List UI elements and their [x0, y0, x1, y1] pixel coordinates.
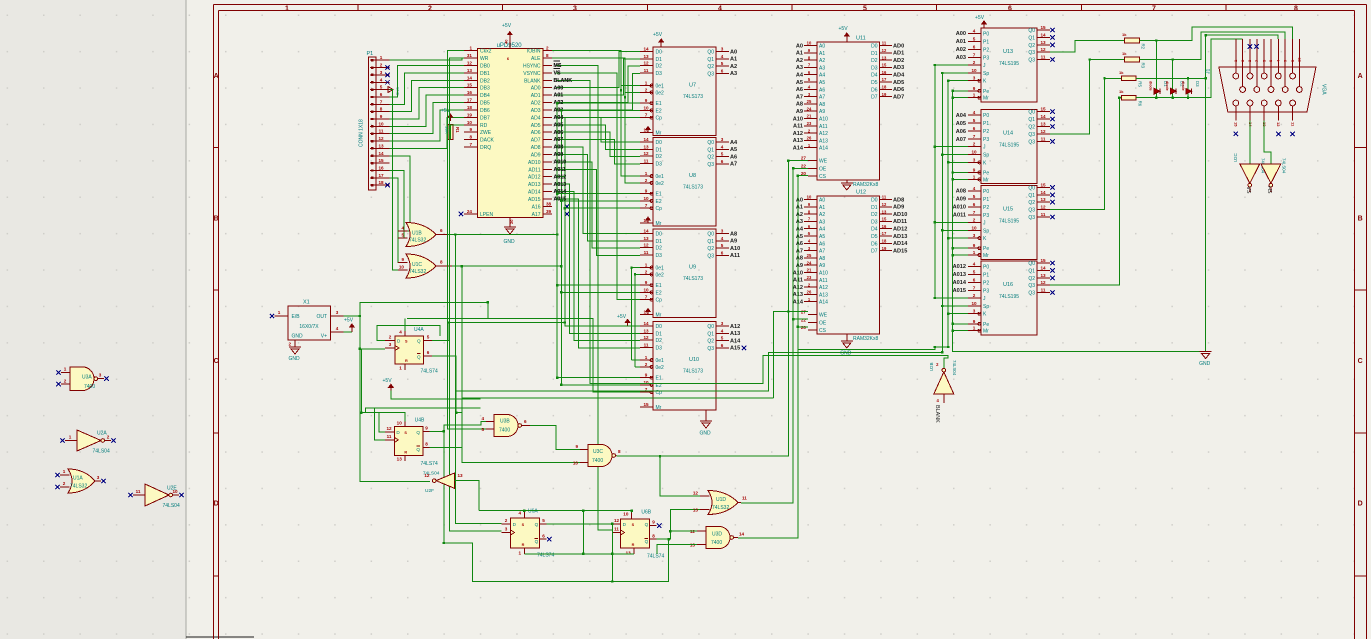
wire VS long vertical: [556, 73, 640, 300]
no-connect marks P1 pins 2,3,4,18: [385, 65, 389, 69]
svg-text:E1: E1: [656, 283, 662, 289]
IC U? uPD9520: [478, 49, 544, 218]
svg-text:A13: A13: [819, 138, 828, 144]
svg-text:17: 17: [882, 231, 887, 236]
svg-text:6: 6: [427, 350, 430, 355]
svg-text:A12: A12: [730, 324, 740, 330]
svg-text:0e2: 0e2: [656, 272, 665, 278]
svg-text:D0: D0: [656, 232, 663, 238]
svg-text:P1: P1: [983, 39, 989, 45]
svg-text:A11: A11: [793, 124, 803, 130]
svg-text:A09: A09: [956, 197, 966, 203]
svg-text:8: 8: [546, 53, 549, 58]
svg-text:Q0: Q0: [707, 50, 714, 56]
svg-text:U1D: U1D: [716, 497, 726, 503]
svg-text:12: 12: [1040, 47, 1046, 52]
svg-text:P3: P3: [983, 288, 989, 294]
svg-text:A03: A03: [956, 55, 966, 61]
svg-text:10: 10: [971, 150, 977, 155]
svg-text:P0: P0: [983, 189, 989, 195]
svg-text:Q0: Q0: [1028, 28, 1035, 34]
svg-text:RAM32Kx8: RAM32Kx8: [853, 182, 879, 188]
svg-text:8: 8: [425, 441, 428, 446]
svg-text:AD7: AD7: [893, 94, 904, 100]
svg-text:10: 10: [643, 196, 649, 201]
svg-text:CS: CS: [819, 174, 827, 180]
svg-text:D0: D0: [871, 44, 878, 50]
svg-text:S: S: [404, 431, 407, 435]
svg-text:4: 4: [401, 225, 404, 230]
svg-text:DACK: DACK: [480, 138, 495, 144]
svg-text:Mr: Mr: [983, 329, 989, 335]
sheet edge: [185, 0, 187, 639]
svg-text:+5V: +5V: [502, 23, 512, 29]
svg-text:10: 10: [397, 420, 403, 425]
svg-text:8: 8: [380, 107, 383, 112]
svg-text:5: 5: [481, 427, 484, 432]
svg-text:U2F: U2F: [425, 488, 434, 494]
svg-text:Q1: Q1: [1028, 117, 1035, 123]
wire J1 pin13 to U2D: [1264, 120, 1271, 164]
svg-text:AD5: AD5: [531, 123, 541, 129]
svg-text:74LS32: 74LS32: [712, 505, 729, 511]
svg-text:40: 40: [504, 39, 509, 44]
svg-text:A6: A6: [819, 241, 825, 247]
wire bus P1 data staircase: [390, 65, 464, 97]
svg-text:9: 9: [973, 243, 976, 248]
svg-text:5: 5: [721, 152, 724, 157]
svg-text:A012: A012: [953, 264, 966, 270]
svg-text:7: 7: [645, 295, 648, 300]
wire U3D out to CS: [738, 176, 808, 538]
svg-text:3: 3: [721, 229, 724, 234]
svg-text:6: 6: [973, 44, 976, 49]
svg-text:U3B: U3B: [500, 419, 510, 425]
svg-text:9: 9: [645, 373, 648, 378]
svg-text:U1B: U1B: [412, 231, 422, 237]
svg-text:HSYNC: HSYNC: [523, 63, 541, 69]
or-gate U1C 74LS32: [406, 254, 436, 278]
svg-text:D0: D0: [656, 324, 663, 330]
svg-text:4: 4: [336, 326, 339, 331]
svg-text:AD8: AD8: [893, 197, 904, 203]
svg-text:Q3: Q3: [707, 346, 714, 352]
wire clock vertical U2F: [360, 316, 430, 482]
svg-text:Q: Q: [535, 539, 539, 544]
inverter U2C 74LS04: [1240, 164, 1260, 184]
svg-text:3: 3: [505, 527, 508, 532]
svg-text:U9: U9: [689, 265, 696, 271]
svg-text:Pe: Pe: [983, 89, 989, 95]
svg-text:E/B: E/B: [292, 314, 301, 320]
svg-text:Q1: Q1: [707, 57, 714, 63]
svg-text:Q: Q: [645, 522, 649, 527]
svg-text:AD15: AD15: [528, 197, 541, 203]
IC U13 74LS195: [981, 28, 1037, 102]
svg-text:6: 6: [973, 202, 976, 207]
wire U3B out to U3C: [530, 426, 580, 450]
svg-text:U15: U15: [1003, 206, 1013, 212]
svg-text:11: 11: [1041, 136, 1046, 141]
svg-text:7400: 7400: [499, 428, 510, 434]
svg-text:15: 15: [1234, 122, 1239, 127]
svg-text:R5: R5: [1138, 81, 1143, 87]
svg-text:4: 4: [973, 261, 976, 266]
or-gate U1A 74LS32: [68, 469, 95, 493]
svg-text:DB6: DB6: [480, 108, 490, 114]
svg-text:A0: A0: [796, 43, 803, 49]
svg-text:12: 12: [693, 491, 699, 496]
svg-text:Q: Q: [416, 430, 420, 435]
+5V above U13: [983, 21, 985, 28]
wire clock drop to loop: [611, 524, 613, 582]
svg-text:A015: A015: [554, 197, 567, 203]
svg-text:A9: A9: [819, 263, 825, 269]
svg-text:VS: VS: [1245, 186, 1251, 194]
svg-text:Mr: Mr: [656, 405, 662, 411]
svg-text:13: 13: [626, 550, 632, 555]
svg-text:D0: D0: [656, 50, 663, 56]
svg-text:74LS173: 74LS173: [683, 276, 703, 282]
svg-text:D5: D5: [871, 234, 878, 240]
wire R5 to VGA comb and ground trunk: [1136, 77, 1205, 79]
svg-text:A10: A10: [819, 117, 828, 123]
svg-text:16: 16: [882, 224, 887, 229]
wire Pe bus to ground trunk: [953, 331, 1206, 352]
svg-text:2: 2: [973, 293, 976, 298]
svg-text:74LS195: 74LS195: [999, 294, 1019, 300]
ground X1: [289, 346, 301, 348]
flip-flop U6B 74LS74: [621, 519, 650, 548]
svg-text:26: 26: [807, 136, 812, 141]
svg-text:2: 2: [645, 362, 648, 367]
svg-text:13: 13: [643, 328, 649, 333]
svg-text:Ckx2: Ckx2: [480, 49, 492, 55]
svg-text:74LS195: 74LS195: [999, 61, 1019, 67]
svg-text:Q3: Q3: [1028, 283, 1035, 289]
svg-text:39: 39: [546, 209, 552, 214]
svg-text:A3: A3: [730, 71, 737, 77]
svg-text:13: 13: [1040, 197, 1046, 202]
wire U2F out: [455, 481, 479, 511]
or-gate U1B 74LS32: [406, 223, 436, 247]
svg-text:P2: P2: [983, 129, 989, 135]
wire U3C out to WE: [617, 161, 809, 457]
svg-text:DB2: DB2: [480, 78, 490, 84]
IC U9 74LS173: [653, 229, 716, 318]
svg-text:15: 15: [643, 402, 649, 407]
svg-text:24: 24: [467, 209, 473, 214]
svg-text:13: 13: [397, 456, 403, 461]
svg-text:13: 13: [378, 143, 384, 148]
svg-text:1k: 1k: [1122, 32, 1127, 37]
wire U16 Q3 to R6: [1050, 98, 1122, 286]
svg-text:U2C: U2C: [1233, 153, 1238, 162]
svg-text:13: 13: [643, 236, 649, 241]
svg-text:B: B: [214, 216, 219, 223]
svg-text:74LS74: 74LS74: [647, 554, 664, 560]
svg-text:D1: D1: [656, 57, 663, 63]
svg-text:7: 7: [645, 203, 648, 208]
svg-text:D3: D3: [656, 71, 663, 77]
svg-text:E2: E2: [656, 199, 662, 205]
svg-text:12: 12: [386, 426, 392, 431]
svg-text:11: 11: [1041, 212, 1046, 217]
svg-text:74LS173: 74LS173: [683, 185, 703, 191]
wire U4A Qbar down: [432, 356, 456, 413]
svg-text:D1: D1: [656, 147, 663, 153]
svg-text:GND: GND: [840, 351, 852, 357]
svg-text:7: 7: [973, 285, 976, 290]
uPD9520 pin LPEN: [464, 213, 478, 215]
svg-text:A1: A1: [819, 51, 825, 57]
svg-text:D5: D5: [871, 80, 878, 86]
svg-text:E1: E1: [656, 192, 662, 198]
svg-text:10: 10: [467, 120, 473, 125]
svg-text:AD3: AD3: [531, 108, 541, 114]
svg-text:2: 2: [645, 269, 648, 274]
svg-text:+5V: +5V: [653, 32, 663, 38]
svg-text:U6A: U6A: [528, 508, 538, 514]
svg-text:1: 1: [278, 310, 281, 315]
svg-text:AD1: AD1: [893, 51, 904, 57]
svg-text:74LS04: 74LS04: [952, 360, 957, 376]
svg-text:J1: J1: [1206, 69, 1212, 75]
wire Cp bus U7 U8 from U4A Q: [565, 118, 640, 323]
svg-text:A00: A00: [554, 85, 564, 91]
svg-text:9: 9: [645, 189, 648, 194]
svg-text:Q1: Q1: [707, 331, 714, 337]
svg-text:1: 1: [64, 367, 67, 372]
svg-text:U13: U13: [1003, 49, 1013, 55]
IC U7 74LS173: [653, 47, 716, 136]
svg-text:6: 6: [524, 419, 527, 424]
svg-text:3: 3: [973, 76, 976, 81]
svg-text:DB3: DB3: [480, 86, 490, 92]
svg-text:15: 15: [1040, 25, 1046, 30]
svg-text:U10: U10: [689, 357, 699, 363]
svg-text:10: 10: [573, 461, 579, 466]
svg-text:11: 11: [379, 129, 384, 134]
svg-text:20: 20: [801, 325, 807, 330]
svg-text:A07: A07: [956, 137, 966, 143]
svg-text:Q3: Q3: [707, 71, 714, 77]
svg-text:D2: D2: [871, 212, 878, 218]
svg-text:A01: A01: [554, 93, 564, 99]
svg-text:4: 4: [721, 236, 724, 241]
svg-text:10: 10: [807, 41, 812, 46]
+5V at U8 Mr: [647, 217, 649, 223]
inverter U2E 74LS04: [145, 484, 169, 506]
svg-text:13: 13: [1040, 40, 1046, 45]
svg-text:R6: R6: [1138, 101, 1143, 107]
svg-text:0e2: 0e2: [656, 90, 665, 96]
svg-text:A05: A05: [956, 121, 966, 127]
svg-text:Mr: Mr: [983, 253, 989, 259]
svg-text:C: C: [214, 358, 219, 365]
svg-text:13: 13: [458, 473, 464, 478]
svg-text:0e1: 0e1: [656, 84, 665, 90]
svg-text:2: 2: [546, 46, 549, 51]
svg-text:diode: diode: [1181, 81, 1185, 91]
+5V above U7: [660, 39, 662, 47]
svg-text:ALE: ALE: [531, 56, 541, 62]
junction dots: [934, 64, 936, 66]
svg-text:8: 8: [652, 533, 655, 538]
svg-text:Q2: Q2: [707, 246, 714, 252]
svg-text:LPEN: LPEN: [480, 212, 493, 218]
uPD9520 right pins: [543, 50, 552, 52]
svg-text:Q0: Q0: [707, 232, 714, 238]
svg-text:A14: A14: [793, 146, 804, 152]
svg-text:D: D: [1358, 501, 1363, 508]
svg-text:11: 11: [882, 195, 887, 200]
svg-text:1: 1: [973, 174, 976, 179]
svg-text:ZWE: ZWE: [480, 130, 492, 136]
svg-text:74LS195: 74LS195: [999, 143, 1019, 149]
svg-text:15: 15: [378, 158, 384, 163]
wire P1.5 to gate U1C: [390, 90, 408, 270]
wire WR trunk: [450, 58, 502, 531]
svg-text:5: 5: [973, 194, 976, 199]
svg-text:5: 5: [721, 243, 724, 248]
svg-text:Q: Q: [535, 522, 539, 527]
nand-gate U3A 7400: [70, 367, 94, 391]
svg-text:2: 2: [63, 481, 66, 486]
svg-text:14: 14: [643, 229, 649, 234]
svg-text:A010: A010: [554, 160, 567, 166]
IC U15 74LS195: [981, 185, 1037, 259]
wire U4B loops: [360, 349, 405, 422]
svg-text:A015: A015: [953, 288, 966, 294]
svg-text:Q0: Q0: [1028, 185, 1035, 191]
wire R3 to VGA comb: [1139, 32, 1285, 60]
svg-text:12: 12: [643, 243, 649, 248]
wire Ckx2 trunk: [448, 51, 486, 429]
svg-text:P0: P0: [983, 31, 989, 37]
svg-text:19: 19: [882, 92, 887, 97]
svg-text:A12: A12: [793, 131, 803, 137]
svg-text:U11: U11: [856, 36, 866, 42]
svg-text:E2: E2: [656, 108, 662, 114]
svg-text:OUT: OUT: [316, 314, 327, 320]
+5V X1 pin4: [344, 331, 352, 333]
svg-text:1: 1: [469, 46, 472, 51]
svg-text:S: S: [522, 523, 525, 527]
svg-text:A6: A6: [796, 87, 803, 93]
svg-text:D3: D3: [656, 253, 663, 259]
svg-text:27: 27: [801, 156, 807, 161]
svg-text:3: 3: [389, 342, 392, 347]
svg-text:A8: A8: [796, 256, 803, 262]
svg-text:0e2: 0e2: [656, 181, 665, 187]
svg-text:11: 11: [644, 250, 649, 255]
svg-text:74LS04: 74LS04: [93, 449, 110, 455]
svg-text:26: 26: [807, 290, 812, 295]
svg-text:1: 1: [973, 250, 976, 255]
svg-text:A3: A3: [796, 219, 803, 225]
svg-text:3: 3: [97, 475, 100, 480]
svg-text:2: 2: [973, 142, 976, 147]
svg-text:5: 5: [721, 336, 724, 341]
svg-text:U3D: U3D: [712, 532, 722, 538]
svg-text:10: 10: [971, 225, 977, 230]
svg-text:9: 9: [469, 127, 472, 132]
svg-text:A12: A12: [819, 131, 828, 137]
IC U14 74LS195: [981, 110, 1037, 184]
svg-text:P1: P1: [367, 51, 374, 57]
svg-text:0e1: 0e1: [656, 358, 665, 364]
svg-text:D0: D0: [656, 140, 663, 146]
wire preset line: [479, 510, 632, 512]
wire Pe Mr bus: [952, 91, 954, 331]
svg-text:U1C: U1C: [412, 262, 422, 268]
svg-text:P2: P2: [983, 280, 989, 286]
svg-text:12: 12: [614, 518, 620, 523]
svg-text:Q3: Q3: [1028, 215, 1035, 221]
svg-text:11: 11: [1041, 55, 1046, 60]
svg-text:D4: D4: [871, 73, 878, 79]
svg-text:GND: GND: [504, 239, 516, 245]
svg-text:U7: U7: [689, 83, 696, 89]
svg-text:A011: A011: [554, 167, 566, 173]
flip-flop U6A 74LS74: [511, 518, 540, 548]
svg-text:13: 13: [467, 68, 473, 73]
svg-text:0e2: 0e2: [656, 365, 665, 371]
svg-text:A04: A04: [956, 113, 967, 119]
svg-text:1: 1: [380, 55, 383, 60]
svg-text:Q3: Q3: [707, 162, 714, 168]
svg-text:16X0/7X: 16X0/7X: [299, 324, 319, 330]
svg-text:AD13: AD13: [528, 182, 541, 188]
svg-text:A2: A2: [796, 212, 803, 218]
svg-text:Q3: Q3: [1028, 50, 1035, 56]
svg-text:74LS74: 74LS74: [421, 369, 438, 375]
svg-text:17: 17: [378, 173, 384, 178]
resistor R6: [1122, 95, 1137, 100]
svg-text:74LS173: 74LS173: [683, 94, 703, 100]
inverter U2F 74LS04: [436, 473, 455, 489]
svg-text:Mr: Mr: [983, 177, 989, 183]
svg-text:9: 9: [575, 444, 578, 449]
ground mid sheet: [705, 410, 707, 414]
svg-text:D6: D6: [871, 87, 878, 93]
svg-text:DRQ: DRQ: [480, 145, 491, 151]
svg-text:16: 16: [467, 90, 473, 95]
resistor R2: [1125, 38, 1140, 43]
svg-text:6: 6: [721, 250, 724, 255]
svg-text:AD2: AD2: [531, 101, 541, 107]
svg-text:Q2: Q2: [1028, 43, 1035, 49]
svg-text:AD0: AD0: [893, 43, 904, 49]
svg-text:diode: diode: [1165, 81, 1169, 91]
svg-text:3: 3: [380, 70, 383, 75]
resistor R5: [1122, 76, 1137, 81]
svg-text:18: 18: [882, 239, 887, 244]
svg-text:AD9: AD9: [531, 152, 541, 158]
resistor R1 10K pull-up: [449, 114, 451, 121]
flip-flop U4B 74LS74: [394, 427, 423, 456]
svg-text:38: 38: [546, 201, 552, 206]
svg-text:+5V: +5V: [383, 378, 393, 384]
wire U14 Q3 to R3: [1050, 60, 1125, 134]
no-connect J1 pins: [1248, 44, 1252, 48]
svg-text:RD: RD: [480, 123, 488, 129]
svg-text:A9: A9: [819, 109, 825, 115]
svg-text:9: 9: [425, 425, 428, 430]
svg-text:U2B: U2B: [929, 362, 934, 371]
wire P1.17 to gate U1C: [390, 178, 408, 263]
